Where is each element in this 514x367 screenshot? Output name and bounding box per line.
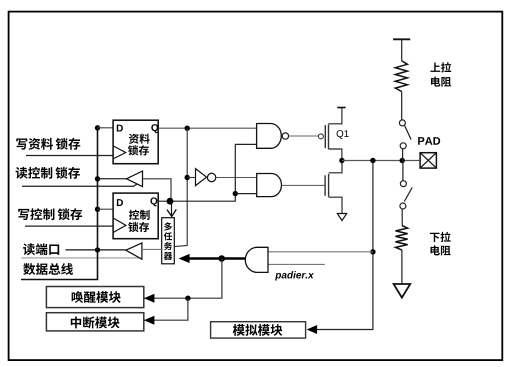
- arrowhead into analog module: [307, 325, 318, 334]
- wire buffer2 input from mux: [142, 248, 162, 250]
- buffer B1 read-control (left pointing): [127, 171, 143, 187]
- wire S2 to resistor R2: [401, 209, 403, 225]
- wire mux select arrow: [171, 201, 173, 215]
- pin label Q (U2): [150, 197, 157, 206]
- wire write-control-latch clock line: [25, 225, 113, 227]
- node bus-D2: [95, 207, 100, 212]
- wire pad feedback vertical to analog: [309, 161, 373, 330]
- label 唤醒模块: [72, 291, 121, 303]
- label padier.x: [275, 271, 314, 280]
- switch S2 pull-down enable: [400, 181, 412, 209]
- label 模拟模块: [233, 324, 283, 336]
- wire padier branch to wakeup row: [144, 259, 222, 299]
- wire R2 to ground: [401, 250, 403, 284]
- latch U2 控制锁存 box: [113, 193, 158, 239]
- node inverter tap: [185, 175, 190, 180]
- node bus-read-port: [95, 247, 100, 252]
- node PMOS-NMOS junction: [339, 158, 344, 163]
- switch S1 pull-up enable: [399, 120, 411, 149]
- wire branch to interrupt row: [144, 298, 188, 320]
- label 上拉电阻: [430, 62, 451, 72]
- wire R1 to switch S1: [401, 92, 403, 120]
- latch U1 资料锁存 box: [113, 120, 158, 164]
- label read-control-latch 读控制锁存: [16, 167, 80, 179]
- node pad-rail: [400, 158, 405, 163]
- mux 多任务器 box: [162, 218, 175, 264]
- wire inverter input stub: [187, 177, 195, 179]
- module box 中断模块: [46, 313, 143, 331]
- value label 资料锁存 (U1): [129, 134, 150, 144]
- node pad-feedback: [370, 158, 375, 163]
- buffer B2 read-port (left pointing): [126, 243, 142, 259]
- wire pad net row: [342, 160, 420, 162]
- wire rail to resistor R1: [401, 39, 403, 61]
- node Q1-branch: [185, 126, 190, 131]
- arrowhead into wakeup module: [144, 294, 155, 303]
- wire D2 input: [98, 208, 114, 210]
- module box 模拟模块: [211, 322, 306, 338]
- module box 唤醒模块: [46, 287, 143, 308]
- label write-control-latch 写控制锁存: [18, 208, 82, 220]
- resistor R1 pull-up: [395, 61, 407, 92]
- pin label D (U2): [117, 199, 123, 206]
- power VDD T-bar (Q1): [337, 107, 345, 109]
- wire read-control-latch label line: [22, 180, 143, 186]
- transistor Q2 NMOS: [325, 161, 342, 214]
- wire buffer1 output to bus: [98, 178, 127, 180]
- ground (pull-down): [394, 284, 411, 298]
- inverter X1: [196, 169, 216, 186]
- node and-bottom-tap: [233, 191, 238, 196]
- node padier-branch: [218, 255, 225, 262]
- resistor R2 pull-down: [396, 225, 408, 250]
- label 中断模块: [71, 316, 120, 328]
- wire and output to NMOS gate: [282, 184, 326, 186]
- wire padier top input: [268, 251, 373, 253]
- label read-port 读端口: [23, 243, 59, 255]
- node Q2: [167, 198, 174, 205]
- wire inverter output to AND: [216, 177, 257, 179]
- pin label D (U1): [117, 125, 123, 132]
- wire padier output (thick): [188, 257, 245, 260]
- latch U1 clock triangle: [113, 146, 126, 159]
- label Q1: [337, 130, 349, 139]
- pin label Q (U1): [151, 124, 158, 133]
- label PAD: [418, 137, 440, 145]
- arrowhead mux select: [167, 209, 176, 216]
- and gate G2: [257, 174, 282, 197]
- wire write-data-latch clock line: [26, 155, 113, 157]
- wire nand output: [289, 135, 319, 137]
- label 下拉电阻: [430, 232, 451, 242]
- wire D1 input: [98, 127, 114, 129]
- wire U1 Q to NAND: [158, 127, 256, 129]
- arrowhead into interrupt module: [144, 316, 155, 325]
- transistor Q1 PMOS: [318, 108, 342, 161]
- wire tap to AND bottom input: [235, 193, 256, 195]
- value label 多任务器 (mux): [164, 222, 173, 260]
- wire pad row to switch S2: [402, 161, 404, 181]
- and gate G3 padier (left pointing): [245, 247, 268, 272]
- ground (NMOS source): [337, 214, 346, 221]
- latch U2 clock triangle: [113, 218, 126, 233]
- wire U2 Q net up to NAND: [158, 144, 256, 201]
- wire padier bottom input stub: [268, 263, 325, 265]
- pad symbol (X box): [420, 153, 436, 168]
- node bus-D1: [95, 125, 100, 130]
- label data-bus 数据总线: [23, 263, 73, 275]
- value label 控制锁存 (U2): [129, 210, 150, 220]
- wire buffer2 output to bus: [66, 249, 126, 251]
- label write-data-latch 写资料锁存: [16, 138, 80, 150]
- node wakeup-interrupt branch: [185, 296, 190, 301]
- wire S1 to pad row: [402, 149, 404, 161]
- power rail top (pull-up): [393, 38, 410, 40]
- nand gate G1: [257, 124, 289, 149]
- wire buffer1 input: [143, 179, 172, 201]
- node bus-read-control: [95, 176, 100, 181]
- node padier-input tap: [370, 249, 375, 254]
- arrowhead into mux: [179, 254, 190, 263]
- wire read-port label line: [21, 257, 140, 259]
- wire Q1 vertical branch: [174, 128, 187, 246]
- wire data bus: [21, 128, 98, 280]
